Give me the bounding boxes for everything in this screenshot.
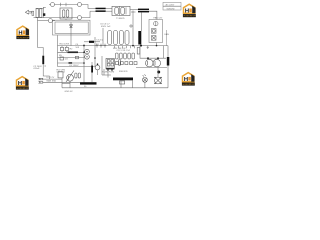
varistor RV1 xyxy=(65,47,68,50)
vertical rail right xyxy=(83,44,85,82)
svg-text:FAN: FAN xyxy=(165,33,170,36)
svg-text:MAX 35A: MAX 35A xyxy=(47,79,57,82)
entry wire xyxy=(38,20,49,22)
arrow tail box xyxy=(32,11,34,15)
transistor Q4 xyxy=(153,59,161,67)
svg-text:GND 0V: GND 0V xyxy=(65,91,74,93)
rail x102 xyxy=(101,56,103,75)
opto inside xyxy=(70,22,72,30)
connector block X1 xyxy=(36,7,44,9)
row wire xyxy=(58,57,85,59)
connector J2 xyxy=(78,3,82,7)
svg-text:R0: R0 xyxy=(84,86,86,88)
fan unit box xyxy=(149,20,163,43)
wire xyxy=(88,8,96,10)
fuse bar F1b xyxy=(96,10,106,12)
rail x103 xyxy=(102,28,104,46)
svg-text:FAN 12V: FAN 12V xyxy=(154,16,163,19)
svg-text:C12 C13 C14: C12 C13 C14 xyxy=(117,50,131,52)
thermistor RT1 xyxy=(60,47,63,50)
small parts row 2 xyxy=(116,62,119,65)
relay K1 xyxy=(60,8,72,19)
logo bottom-right xyxy=(182,72,195,86)
grommet circle xyxy=(48,19,52,23)
wires IC to bar xyxy=(103,69,105,75)
resistor R15 vertical xyxy=(137,48,140,55)
wire Q4 collector xyxy=(163,46,165,59)
svg-text:C3 2n2: C3 2n2 xyxy=(96,40,104,42)
main bus xyxy=(58,45,169,47)
junction dot xyxy=(132,45,134,47)
plug arrow xyxy=(25,10,31,14)
svg-text:DC 12V: DC 12V xyxy=(47,77,55,79)
bottom-left wire xyxy=(58,66,96,68)
relay box xyxy=(58,72,63,78)
cap C11 xyxy=(91,62,93,66)
filter cap C6 xyxy=(114,31,118,45)
svg-text:R30 R31: R30 R31 xyxy=(119,71,128,73)
svg-text:470uF: 470uF xyxy=(33,68,40,70)
fuse bar F1a xyxy=(96,8,106,10)
output wire 2 xyxy=(43,81,80,83)
wire xyxy=(106,10,112,12)
node junction 1 xyxy=(60,3,62,6)
electrolytic C9 xyxy=(138,31,141,45)
table xyxy=(163,2,181,10)
transformer T1 xyxy=(112,6,130,15)
fan motor M1 xyxy=(155,77,162,84)
wire xyxy=(82,11,91,17)
background xyxy=(0,0,200,94)
junction circle xyxy=(130,25,132,27)
transistor Q2 xyxy=(85,55,90,60)
short link xyxy=(62,83,70,85)
lamp indicator xyxy=(143,77,148,82)
wire xyxy=(90,10,96,12)
switch lever diagonal xyxy=(66,71,74,83)
output wire 1 xyxy=(43,78,62,80)
junction dot xyxy=(83,62,85,64)
vertical rail xyxy=(57,35,59,66)
filter cap C8 xyxy=(125,31,129,45)
logo left-middle xyxy=(16,26,29,40)
logo top-right xyxy=(183,4,196,18)
row resistor R1 black xyxy=(58,51,85,53)
logo bottom-left xyxy=(16,76,29,90)
cap on row xyxy=(76,56,79,59)
enclosure box inner xyxy=(55,22,88,33)
svg-text:R10 470K: R10 470K xyxy=(60,43,70,45)
output arrows xyxy=(39,78,43,80)
gnd bar 1 xyxy=(80,82,97,84)
small caps under bus xyxy=(96,44,98,48)
wire below bar xyxy=(120,80,122,88)
bus stubs xyxy=(114,46,116,49)
transistor Q1 xyxy=(85,49,90,54)
bar F2b xyxy=(138,11,149,13)
wire xyxy=(82,5,89,9)
electrolytic C2 xyxy=(42,56,44,64)
bottom bus xyxy=(62,87,168,89)
wire down to C9 xyxy=(141,12,143,31)
wire fan to bus xyxy=(156,43,158,46)
emitter bus xyxy=(136,67,167,69)
LED arrows xyxy=(143,74,146,76)
wire to fan xyxy=(149,11,157,19)
junction dots under U1 xyxy=(107,69,109,71)
svg-text:T1 EE25: T1 EE25 xyxy=(116,18,125,20)
gnd bar 2 xyxy=(113,78,133,81)
U1 dark bottom edge xyxy=(106,68,114,70)
wire top L1 xyxy=(55,4,78,6)
junction dots xyxy=(147,57,149,59)
wire fan right xyxy=(166,30,168,46)
wire left drop xyxy=(37,18,39,48)
wire down from bar end xyxy=(132,80,134,88)
svg-text:50/60Hz: 50/60Hz xyxy=(167,8,175,10)
svg-text:TL494 PWM: TL494 PWM xyxy=(102,72,114,74)
connector J1 xyxy=(51,3,55,7)
wire xyxy=(106,8,112,10)
resistor under bar xyxy=(120,81,125,84)
vertical rail x95 xyxy=(94,37,96,67)
wire bottom L2 xyxy=(45,17,78,19)
electrolytic C10 xyxy=(167,46,169,57)
junction dot xyxy=(156,45,158,47)
junction dot xyxy=(140,45,142,47)
cap C16 xyxy=(118,60,120,66)
stub under bus xyxy=(147,46,149,49)
small caps xyxy=(75,73,77,78)
bar F2a xyxy=(138,9,149,11)
wire xyxy=(130,9,138,11)
svg-text:C5 C6 C7: C5 C6 C7 xyxy=(100,24,110,26)
node junction 2 xyxy=(65,3,67,6)
tiny text labels xyxy=(33,3,174,93)
enclosure box outer xyxy=(53,20,91,35)
wire down from T1 xyxy=(132,14,134,46)
filter cap C7 xyxy=(119,31,123,45)
wire to transistors xyxy=(140,46,166,59)
transistor Q5 xyxy=(67,74,74,81)
row resistor R3 xyxy=(58,62,85,64)
junction dot xyxy=(83,52,85,54)
wire down xyxy=(70,30,72,46)
svg-text:450V 1uF: 450V 1uF xyxy=(101,26,111,28)
transistor Q3 xyxy=(146,59,154,67)
transistor Q6 xyxy=(95,65,100,70)
diode D1 black xyxy=(84,41,100,43)
bridge block U1 xyxy=(106,59,114,70)
junction dot xyxy=(94,57,96,59)
filter cap C5 xyxy=(108,31,112,45)
wires down xyxy=(61,78,63,88)
junction black xyxy=(157,71,160,74)
svg-text:C18 104: C18 104 xyxy=(57,72,66,74)
junction dot xyxy=(83,45,85,47)
svg-text:Q5 13007: Q5 13007 xyxy=(69,65,79,67)
diode D3 box xyxy=(60,57,64,60)
small caps row xyxy=(116,53,119,59)
svg-text:AC 220V: AC 220V xyxy=(166,3,175,6)
connector J3 xyxy=(78,16,82,20)
node junction cross xyxy=(132,11,134,14)
